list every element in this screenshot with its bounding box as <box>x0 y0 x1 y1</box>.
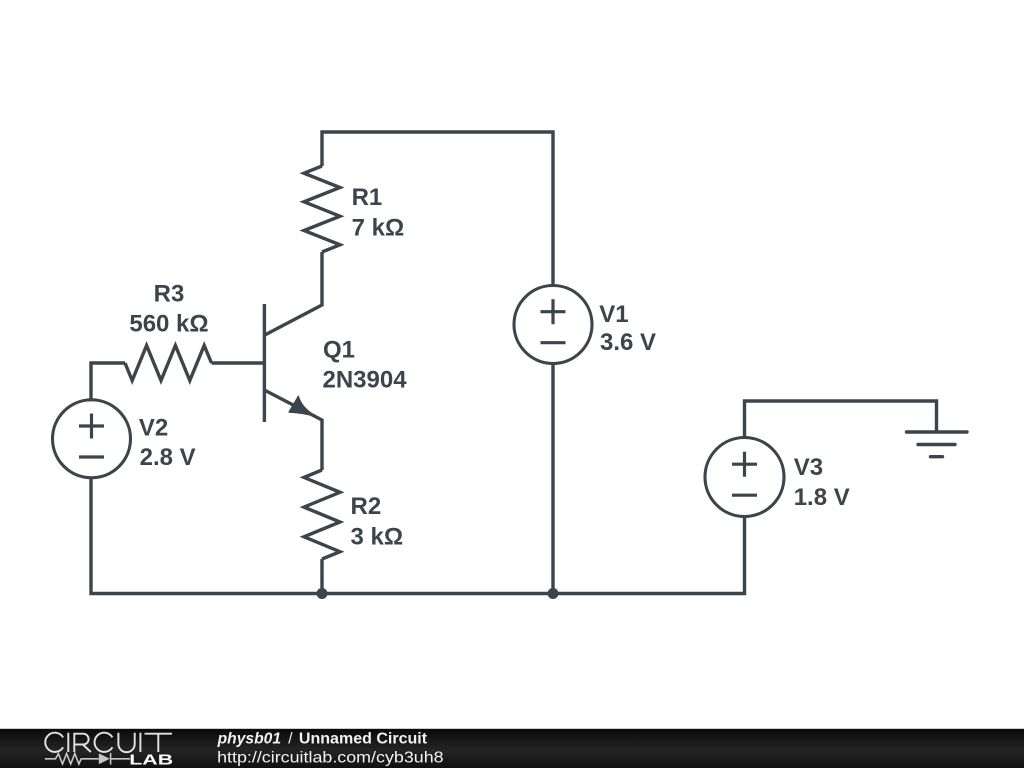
svg-text:V3: V3 <box>794 454 823 481</box>
svg-text:physb01: physb01 <box>217 731 282 748</box>
svg-text:R3: R3 <box>154 280 185 307</box>
svg-text:2N3904: 2N3904 <box>323 366 408 393</box>
svg-text:/: / <box>288 731 293 748</box>
svg-text:V1: V1 <box>599 301 628 328</box>
svg-text:3 kΩ: 3 kΩ <box>351 524 404 551</box>
svg-text:V2: V2 <box>139 415 168 442</box>
svg-text:3.6 V: 3.6 V <box>600 329 656 356</box>
svg-text:7 kΩ: 7 kΩ <box>352 215 405 242</box>
svg-text:LAB: LAB <box>129 751 173 768</box>
svg-text:2.8 V: 2.8 V <box>140 444 196 471</box>
svg-text:1.8 V: 1.8 V <box>794 484 850 511</box>
svg-text:560 kΩ: 560 kΩ <box>129 310 208 337</box>
svg-text:R1: R1 <box>352 184 383 211</box>
svg-text:http://circuitlab.com/cyb3uh8: http://circuitlab.com/cyb3uh8 <box>217 750 444 767</box>
svg-text:Unnamed Circuit: Unnamed Circuit <box>299 731 427 748</box>
svg-text:Q1: Q1 <box>323 337 355 364</box>
svg-text:R2: R2 <box>351 493 382 520</box>
